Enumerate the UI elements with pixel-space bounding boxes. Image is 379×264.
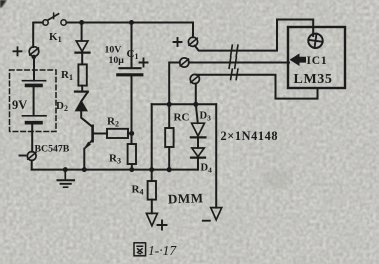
transistor Q1 BC547B — [85, 126, 107, 149]
wire: middle rail left end down to ground rail and R4 — [151, 104, 153, 169]
zener diode D2 — [75, 92, 88, 111]
node: dot where wire meets plus circle — [32, 55, 36, 59]
ground rail (bottom horizontal bus) — [32, 169, 198, 171]
terminal: lower (circle with slash) — [190, 74, 199, 83]
ground symbol — [58, 170, 75, 188]
label: + of battery terminal — [14, 47, 22, 55]
node: junction R2 / C1 / R3 — [129, 131, 134, 136]
svg-text:10V: 10V — [105, 45, 122, 56]
wire: RC bottom to ground rail — [168, 147, 170, 170]
resistor R1 — [78, 64, 86, 85]
svg-text:DMM: DMM — [168, 190, 204, 206]
svg-text:9V: 9V — [12, 98, 27, 112]
wire: between battery cells — [33, 87, 35, 115]
wire: terminal A to LM35 over-the-top lead — [195, 20, 313, 51]
wire: middle terminal left then down to middle rail — [169, 63, 180, 105]
wire: R3 bottom to ground rail — [131, 164, 133, 170]
wire: top rail from switch to right corner — [66, 23, 193, 38]
wire: D2 anode to transistor collector — [81, 111, 92, 127]
label: + of C1 — [140, 59, 148, 67]
svg-text:IC1: IC1 — [307, 55, 328, 67]
resistor R3 — [128, 144, 136, 164]
node: junction dot top rail / C1 branch — [129, 20, 134, 25]
capacitor C1 (electrolytic) — [118, 68, 142, 75]
scan artifact: top-left corner blob — [0, 0, 7, 8]
node: emitter / ground rail junction — [82, 167, 87, 172]
wire: D3 to D4 — [197, 138, 199, 147]
resistor R4 — [148, 181, 156, 200]
wire: top rail left segment with corner to battery plus terminal — [33, 23, 43, 48]
resistor RC — [165, 128, 173, 147]
wire: battery bottom plate to minus terminal — [31, 125, 33, 152]
label: - of battery terminal — [20, 155, 26, 157]
wire: ground rail to R4 — [151, 170, 153, 181]
svg-text:LM35: LM35 — [294, 72, 333, 87]
diode D1 (top diode above R1) — [76, 41, 90, 53]
cable marks on top wire — [231, 45, 238, 56]
LM35 metal-can top symbol — [307, 33, 323, 49]
pin arrow into IC1 — [290, 53, 307, 66]
switch K1 — [43, 13, 66, 25]
node: RC / ground rail junction — [167, 167, 172, 172]
node: junction dot top rail / D1 branch — [79, 20, 84, 25]
cable marks on middle wire — [229, 57, 236, 68]
wire: lower terminal to LM35 ground pin (under the box) — [197, 75, 318, 99]
terminal: middle (circle with slash) — [180, 58, 189, 67]
diode D4 — [191, 148, 205, 158]
dashed enclosure around battery — [10, 70, 57, 132]
battery B1 9V : cell 1 — [23, 81, 46, 86]
wire: R4 to DMM + probe — [151, 200, 153, 214]
scan artifact: faint smudges — [264, 170, 292, 188]
terminal: battery + plug (circle with slash) — [29, 47, 39, 57]
middle rail (to RC / D3 / DMM minus) — [152, 103, 217, 105]
terminal: DMM - probe arrow — [211, 208, 222, 220]
wire: battery - terminal down to ground rail — [31, 161, 33, 170]
svg-text:10μ: 10μ — [109, 55, 125, 66]
wire: R1 to D2 — [81, 86, 83, 91]
cable marks on lower wire — [231, 69, 238, 79]
node: junction ground rail / R4 — [149, 167, 154, 172]
wire: D3 branch from middle rail — [196, 104, 198, 123]
node: junction middle rail / D3 branch — [193, 102, 198, 107]
terminal: DMM + probe arrow — [146, 213, 157, 225]
wire: D4 anode to ground rail — [197, 159, 199, 170]
svg-text:BC547B: BC547B — [35, 144, 70, 155]
wire: lower terminal down to middle rail — [195, 84, 197, 105]
wire: middle terminal to LM35 output pin — [189, 62, 289, 64]
terminal: output + (circle with slash) — [188, 37, 197, 46]
node: ground rail / ground symbol junction — [63, 167, 68, 172]
label: - at DMM probe — [203, 220, 210, 222]
wire: top rail down to C1 — [131, 23, 133, 68]
IC U1 LM35 package box — [288, 27, 345, 88]
terminal: battery - plug (circle with slash) — [27, 152, 36, 161]
wire: middle rail right end down to DMM - probe — [215, 104, 217, 207]
wire: C1 bottom down to R3 — [131, 76, 133, 144]
label: + at output terminal — [174, 38, 182, 46]
wire: R2 right end to C1/R3 vertical — [128, 132, 132, 134]
node: R3 / ground rail junction — [129, 167, 134, 172]
wire: RC branch from middle rail to RC resistor — [168, 104, 170, 128]
wire: battery + circle to battery top plate — [33, 56, 35, 80]
svg-text:1-·17: 1-·17 — [148, 243, 177, 258]
wire: D1 branch from top rail — [81, 23, 83, 41]
diode D3 — [191, 123, 206, 137]
battery B1 9V : cell 2 — [23, 116, 47, 123]
node: junction middle rail / RC branch — [167, 102, 172, 107]
caption: figure glyph (CJK tu) — [134, 243, 146, 256]
svg-text:2×1N4148: 2×1N4148 — [221, 129, 279, 143]
resistor R2 — [107, 129, 128, 138]
svg-text:RC: RC — [174, 112, 190, 124]
wire: D1 to R1 — [81, 54, 83, 65]
wire: emitter down to ground rail — [83, 149, 85, 170]
label: + at DMM probe — [158, 221, 167, 230]
